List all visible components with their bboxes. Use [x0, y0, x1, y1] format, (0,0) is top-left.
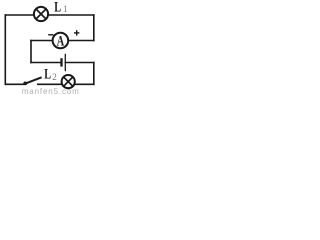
svg-text:L: L — [54, 0, 61, 15]
svg-text:L: L — [44, 67, 51, 83]
svg-text:A: A — [57, 34, 65, 50]
svg-text:1: 1 — [63, 4, 68, 14]
svg-text:2: 2 — [52, 72, 57, 82]
